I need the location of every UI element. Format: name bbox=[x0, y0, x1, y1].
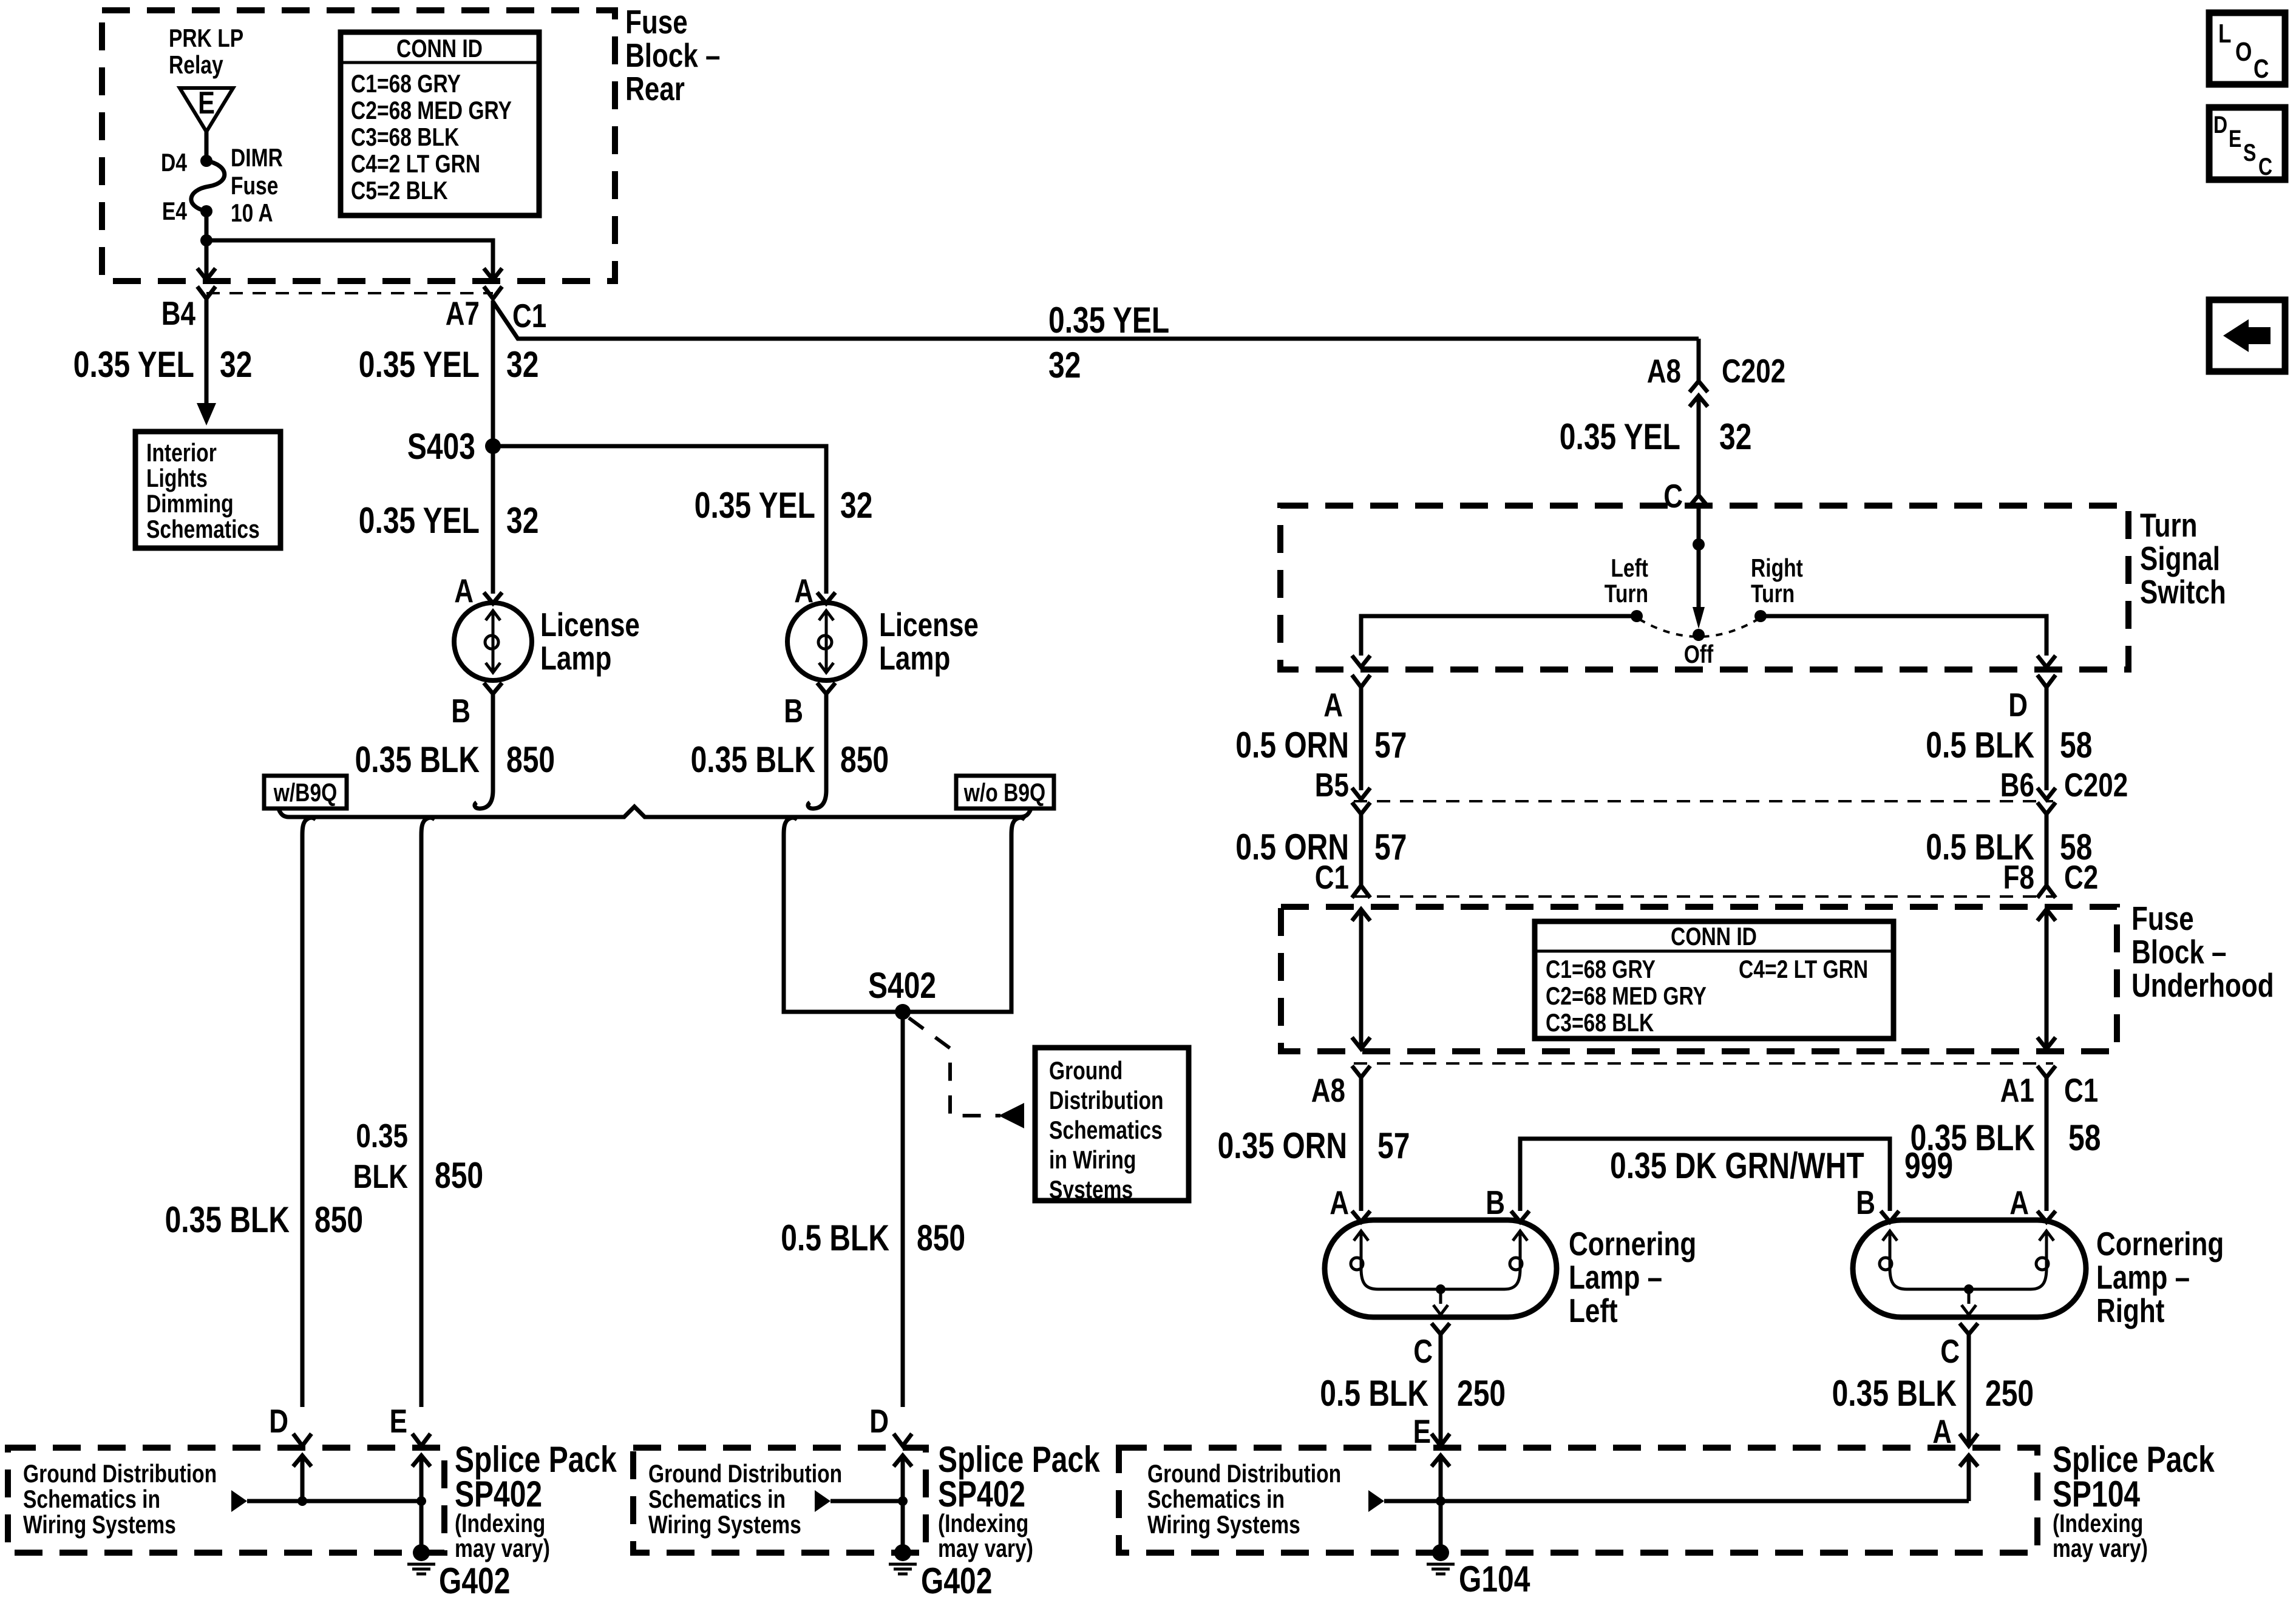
svg-text:(Indexing: (Indexing bbox=[2053, 1509, 2143, 1537]
arrowhead at B4 box exit bbox=[197, 268, 216, 280]
splice pack SP104 box bbox=[1119, 1448, 2037, 1553]
hook S402 right wire bbox=[1011, 818, 1025, 835]
svg-text:CONN ID: CONN ID bbox=[396, 34, 483, 63]
connector chevron A7 bbox=[484, 286, 502, 299]
svg-text:Systems: Systems bbox=[1049, 1175, 1133, 1204]
svg-text:B4: B4 bbox=[161, 294, 196, 332]
svg-text:in Wiring: in Wiring bbox=[1049, 1145, 1136, 1174]
wire S403 down to lamp 1 bbox=[491, 446, 495, 594]
svg-text:Block –: Block – bbox=[2131, 933, 2227, 971]
terminal D chevron below switch bbox=[2037, 675, 2056, 687]
wire long yel down to C202 bbox=[1697, 339, 1701, 382]
svg-text:Right: Right bbox=[2096, 1292, 2164, 1329]
svg-text:A8: A8 bbox=[1647, 352, 1681, 390]
label w/B9Q bbox=[264, 776, 347, 808]
switch contact left turn bbox=[1631, 610, 1643, 622]
junction node sp104 rail bbox=[1436, 1496, 1445, 1506]
svg-text:S403: S403 bbox=[407, 426, 475, 467]
rail with off page triangle sp402a bbox=[231, 1490, 247, 1512]
svg-text:D: D bbox=[869, 1402, 889, 1440]
arrow + chevron at B6 bbox=[2037, 788, 2056, 799]
connector C1 thin dashed line under rear fuse block bbox=[206, 292, 493, 294]
junction node S402 rail bbox=[898, 1496, 908, 1506]
svg-text:B: B bbox=[451, 692, 470, 730]
svg-text:999: 999 bbox=[1904, 1145, 1953, 1186]
svg-text:0.5 BLK: 0.5 BLK bbox=[781, 1218, 889, 1258]
svg-text:0.5 BLK: 0.5 BLK bbox=[1320, 1373, 1428, 1414]
chevron A1 C1 below underhood bbox=[2037, 1066, 2056, 1077]
svg-text:58: 58 bbox=[2068, 1117, 2101, 1158]
connector chevron B4 bbox=[197, 286, 216, 299]
svg-text:C1=68 GRY: C1=68 GRY bbox=[1546, 955, 1656, 983]
svg-text:A1: A1 bbox=[2000, 1071, 2034, 1109]
svg-text:Underhood: Underhood bbox=[2131, 966, 2274, 1004]
relay K triangle with E bbox=[180, 88, 233, 132]
svg-text:Ground Distribution: Ground Distribution bbox=[23, 1459, 217, 1488]
interior lights dimming schematics box bbox=[135, 432, 280, 548]
junction node E rail bbox=[416, 1496, 426, 1506]
cornering lamp right body bbox=[1853, 1220, 2086, 1317]
svg-text:may vary): may vary) bbox=[938, 1534, 1033, 1562]
svg-text:B: B bbox=[1486, 1184, 1505, 1221]
svg-text:E: E bbox=[198, 86, 215, 121]
wire left turn output bbox=[1361, 616, 1637, 656]
ground distribution schematics note box bbox=[1035, 1048, 1189, 1201]
svg-text:E: E bbox=[390, 1402, 407, 1440]
wire junction down to B4 exit bbox=[205, 240, 209, 266]
svg-text:D: D bbox=[269, 1402, 288, 1440]
svg-text:0.35 YEL: 0.35 YEL bbox=[359, 500, 480, 541]
svg-text:57: 57 bbox=[1374, 827, 1407, 867]
CONN ID table rear bbox=[341, 32, 539, 215]
svg-text:850: 850 bbox=[506, 739, 555, 780]
svg-text:B5: B5 bbox=[1315, 766, 1349, 804]
dashed leader S402 to ground distribution note bbox=[909, 1018, 1000, 1116]
wire B6 to F8 bbox=[2045, 814, 2049, 886]
wire dk grn/wht between lamps bbox=[1520, 1139, 1890, 1211]
svg-text:A: A bbox=[1932, 1412, 1952, 1450]
svg-text:B: B bbox=[1856, 1184, 1875, 1221]
wire lamp right to SP104 bbox=[1967, 1334, 1971, 1446]
svg-text:Interior: Interior bbox=[146, 438, 217, 467]
svg-text:Signal: Signal bbox=[2140, 540, 2220, 577]
arrowhead at A7 box exit bbox=[484, 268, 502, 280]
wire junction to A7 exit bbox=[206, 240, 493, 266]
svg-text:0.35 BLK: 0.35 BLK bbox=[1832, 1373, 1957, 1414]
hook S402 left wire bbox=[784, 818, 797, 835]
svg-text:may vary): may vary) bbox=[2053, 1534, 2148, 1562]
connector C202 thin dashed line bbox=[1354, 800, 2053, 802]
wire E down bbox=[419, 835, 424, 1407]
svg-text:BLK: BLK bbox=[353, 1158, 409, 1195]
svg-text:Schematics in: Schematics in bbox=[1147, 1485, 1285, 1513]
svg-text:57: 57 bbox=[1377, 1125, 1410, 1166]
svg-text:Rear: Rear bbox=[625, 70, 685, 107]
svg-text:C5=2 BLK: C5=2 BLK bbox=[351, 176, 448, 205]
svg-text:Cornering: Cornering bbox=[2096, 1225, 2224, 1263]
wire lamp1 to bus bbox=[491, 694, 495, 790]
svg-text:C: C bbox=[2258, 154, 2272, 180]
svg-text:Wiring Systems: Wiring Systems bbox=[1147, 1510, 1300, 1539]
svg-text:C1: C1 bbox=[512, 297, 546, 334]
svg-text:A: A bbox=[454, 572, 474, 609]
svg-text:850: 850 bbox=[435, 1155, 483, 1196]
wire B4 down to interior lights box bbox=[205, 299, 209, 408]
svg-text:(Indexing: (Indexing bbox=[938, 1509, 1028, 1537]
svg-text:0.35 YEL: 0.35 YEL bbox=[1048, 300, 1169, 341]
wire A8 to cornering lamp left bbox=[1359, 1077, 1364, 1211]
svg-text:250: 250 bbox=[1457, 1373, 1506, 1414]
license lamp 2 bbox=[787, 603, 865, 680]
terminal A chevron lamp2 bbox=[817, 592, 835, 603]
DESC icon box bbox=[2209, 107, 2285, 180]
wire lamp left to SP104 bbox=[1439, 1334, 1443, 1446]
svg-text:E: E bbox=[2229, 126, 2241, 152]
svg-text:32: 32 bbox=[506, 344, 538, 385]
svg-text:Distribution: Distribution bbox=[1049, 1086, 1164, 1114]
svg-text:G402: G402 bbox=[439, 1561, 510, 1601]
svg-text:may vary): may vary) bbox=[455, 1534, 550, 1562]
turn signal switch dashed box bbox=[1280, 506, 2128, 670]
arrowhead left output bbox=[1352, 656, 1370, 667]
svg-text:w/o B9Q: w/o B9Q bbox=[963, 778, 1045, 807]
rail with off page triangle sp402b bbox=[815, 1490, 830, 1512]
svg-text:Fuse: Fuse bbox=[625, 3, 688, 41]
svg-text:850: 850 bbox=[840, 739, 889, 780]
filament B left bbox=[1519, 1232, 1522, 1261]
svg-text:0.35 YEL: 0.35 YEL bbox=[1560, 416, 1680, 457]
svg-text:57: 57 bbox=[1374, 725, 1407, 765]
svg-text:C1=68 GRY: C1=68 GRY bbox=[351, 69, 461, 98]
svg-text:D4: D4 bbox=[161, 148, 188, 177]
ground G104 bbox=[1432, 1544, 1449, 1561]
svg-text:Lamp: Lamp bbox=[879, 639, 950, 677]
svg-text:0.35 ORN: 0.35 ORN bbox=[1218, 1125, 1347, 1166]
wire S402 down bbox=[901, 1012, 905, 1407]
leader arrowhead bbox=[999, 1103, 1024, 1128]
arrowhead right output bbox=[2037, 656, 2056, 667]
filament rail left lamp bbox=[1361, 1269, 1520, 1289]
svg-text:Schematics: Schematics bbox=[146, 515, 260, 543]
svg-text:PRK LP: PRK LP bbox=[169, 24, 243, 52]
fuse block underhood dashed box bbox=[1281, 907, 2117, 1051]
connector C202 double chevron A8 bbox=[1690, 381, 1708, 392]
svg-text:DIMR: DIMR bbox=[231, 143, 283, 172]
wire A to C202 bbox=[1359, 687, 1364, 790]
ground bus line with center break bbox=[279, 807, 1031, 817]
node Off bbox=[1693, 629, 1705, 641]
svg-text:Wiring Systems: Wiring Systems bbox=[23, 1510, 176, 1539]
svg-text:C2=68 MED GRY: C2=68 MED GRY bbox=[351, 96, 512, 124]
hook lamp1 ground bbox=[475, 790, 493, 808]
svg-text:32: 32 bbox=[1048, 345, 1081, 385]
svg-text:Relay: Relay bbox=[169, 50, 223, 79]
svg-text:0.35 BLK: 0.35 BLK bbox=[165, 1199, 290, 1240]
terminal B chevron lamp2 bbox=[817, 683, 835, 694]
filament rail right lamp bbox=[1890, 1269, 2046, 1289]
svg-text:G402: G402 bbox=[921, 1561, 992, 1601]
svg-text:C1: C1 bbox=[1315, 858, 1349, 896]
hook lamp2 ground bbox=[808, 790, 826, 808]
arrow at F8 bbox=[2037, 886, 2056, 898]
svg-text:C: C bbox=[1663, 477, 1683, 515]
svg-text:32: 32 bbox=[840, 485, 872, 526]
svg-text:58: 58 bbox=[2060, 725, 2092, 765]
LOC icon box bbox=[2209, 13, 2285, 84]
underhood right through-wire with arrows bbox=[2045, 909, 2049, 1049]
svg-text:L: L bbox=[2218, 19, 2232, 49]
svg-text:C: C bbox=[1413, 1332, 1433, 1370]
underhood connector thin dashed line (top) bbox=[1354, 895, 2053, 898]
terminal B chevron lamp1 bbox=[484, 683, 502, 694]
rail with off page triangle sp104 bbox=[1368, 1490, 1384, 1512]
svg-text:0.35 YEL: 0.35 YEL bbox=[359, 344, 480, 385]
svg-text:S: S bbox=[2243, 140, 2256, 166]
chevron A8 below underhood bbox=[1352, 1066, 1370, 1077]
svg-text:A: A bbox=[1330, 1184, 1349, 1221]
svg-text:O: O bbox=[2235, 37, 2252, 67]
svg-text:0.35 BLK: 0.35 BLK bbox=[691, 739, 815, 780]
svg-text:Lamp –: Lamp – bbox=[1569, 1258, 1662, 1296]
svg-text:Fuse: Fuse bbox=[2131, 900, 2194, 937]
svg-text:Wiring Systems: Wiring Systems bbox=[648, 1510, 801, 1539]
svg-text:Left: Left bbox=[1611, 554, 1648, 582]
splice S403 bbox=[485, 438, 501, 454]
svg-text:Ground Distribution: Ground Distribution bbox=[648, 1459, 842, 1488]
svg-text:32: 32 bbox=[220, 344, 252, 385]
svg-text:0.35 BLK: 0.35 BLK bbox=[355, 739, 480, 780]
SECTION: splice packs left bbox=[8, 1402, 1100, 1601]
wire E4 down bbox=[205, 211, 209, 240]
svg-text:D: D bbox=[2213, 112, 2227, 138]
wire C1 branch diagonal to long yel wire bbox=[493, 302, 1699, 339]
svg-text:Schematics: Schematics bbox=[1049, 1116, 1163, 1144]
filament A right bbox=[2045, 1232, 2048, 1261]
svg-text:C4=2 LT GRN: C4=2 LT GRN bbox=[1739, 955, 1868, 983]
filament A left bbox=[1360, 1232, 1363, 1261]
switch common wire bbox=[1697, 506, 1701, 607]
svg-text:Turn: Turn bbox=[1751, 579, 1795, 608]
svg-text:SP104: SP104 bbox=[2053, 1474, 2141, 1514]
SECTION: right column bbox=[1218, 339, 2274, 1211]
svg-text:C1: C1 bbox=[2064, 1071, 2098, 1109]
ground G402 (1) bbox=[413, 1544, 430, 1561]
svg-text:Fuse: Fuse bbox=[231, 171, 278, 200]
svg-text:C3=68 BLK: C3=68 BLK bbox=[351, 123, 459, 151]
svg-text:Cornering: Cornering bbox=[1569, 1225, 1696, 1263]
svg-text:Left: Left bbox=[1569, 1292, 1618, 1329]
arrow at C1 bbox=[1352, 886, 1370, 898]
underhood connector thin dashed line (bottom) bbox=[1354, 1062, 2053, 1065]
svg-text:License: License bbox=[879, 606, 979, 643]
svg-text:C202: C202 bbox=[2064, 766, 2128, 804]
svg-text:Ground Distribution: Ground Distribution bbox=[1147, 1459, 1341, 1488]
rail up arrow to A chevron sp104 bbox=[1967, 1456, 1971, 1501]
svg-text:Schematics in: Schematics in bbox=[648, 1485, 786, 1513]
svg-text:32: 32 bbox=[506, 500, 538, 541]
svg-text:850: 850 bbox=[917, 1218, 965, 1258]
svg-text:A: A bbox=[2009, 1184, 2029, 1221]
svg-text:Ground: Ground bbox=[1049, 1056, 1123, 1085]
svg-text:850: 850 bbox=[314, 1199, 363, 1240]
arrow into box D wire bbox=[293, 1456, 311, 1466]
svg-text:B6: B6 bbox=[2000, 766, 2034, 804]
wire C202 to switch bbox=[1697, 396, 1701, 497]
svg-text:C3=68 BLK: C3=68 BLK bbox=[1546, 1008, 1654, 1037]
wire S403 right branch to lamp 2 bbox=[493, 446, 826, 594]
svg-text:0.35 YEL: 0.35 YEL bbox=[73, 344, 194, 385]
svg-text:(Indexing: (Indexing bbox=[455, 1509, 545, 1537]
arrow into box E wire bbox=[412, 1456, 430, 1466]
terminal C chevron bbox=[1690, 495, 1708, 506]
svg-text:F8: F8 bbox=[2003, 858, 2034, 896]
svg-text:10 A: 10 A bbox=[231, 198, 273, 227]
wire D down bbox=[301, 835, 305, 1407]
junction node D rail bbox=[297, 1496, 307, 1506]
license lamp 1 bbox=[454, 603, 532, 680]
arrow + chevron at B5 bbox=[1352, 788, 1370, 799]
switch contact right turn bbox=[1754, 610, 1767, 622]
switch arm solid arrowhead bbox=[1693, 607, 1705, 629]
svg-text:32: 32 bbox=[1719, 416, 1751, 457]
svg-text:E: E bbox=[1413, 1412, 1431, 1450]
SECTION: fuse block rear bbox=[102, 3, 721, 281]
svg-text:C202: C202 bbox=[1722, 352, 1785, 390]
svg-text:D: D bbox=[2008, 686, 2028, 724]
node D4 bbox=[200, 155, 212, 167]
svg-text:A8: A8 bbox=[1311, 1071, 1345, 1109]
arrow into box E wire sp104 bbox=[1432, 1456, 1450, 1466]
svg-text:CONN ID: CONN ID bbox=[1671, 922, 1757, 951]
wire A7 down to S403 bbox=[491, 300, 495, 446]
svg-text:Lights: Lights bbox=[146, 464, 208, 492]
cornering lamp left body bbox=[1325, 1220, 1557, 1317]
svg-text:B: B bbox=[784, 692, 803, 730]
underhood left through-wire with arrows bbox=[1359, 909, 1364, 1049]
svg-text:0.5 ORN: 0.5 ORN bbox=[1235, 725, 1349, 765]
wire D to C202 bbox=[2045, 687, 2049, 790]
SECTION: lamps and bus bbox=[165, 572, 1189, 1407]
arrow into box S402 wire bbox=[894, 1456, 912, 1466]
junction node bbox=[200, 234, 212, 246]
svg-text:A7: A7 bbox=[446, 294, 480, 332]
hook D wire bbox=[302, 818, 316, 835]
splice S402 bbox=[895, 1004, 911, 1020]
svg-text:Turn: Turn bbox=[1605, 579, 1648, 608]
SECTION: cornering lamps bbox=[1119, 1184, 2224, 1599]
svg-text:SP402: SP402 bbox=[455, 1474, 542, 1514]
solid arrowhead to interior lights box bbox=[197, 403, 216, 425]
terminal A chevron lamp1 bbox=[484, 592, 502, 603]
fuse DIMR 10A bbox=[191, 161, 225, 211]
svg-text:G104: G104 bbox=[1459, 1559, 1530, 1599]
filament B right bbox=[1889, 1232, 1892, 1261]
junction node on switch wire bbox=[1693, 538, 1705, 551]
svg-text:C4=2 LT GRN: C4=2 LT GRN bbox=[351, 149, 480, 178]
svg-text:License: License bbox=[540, 606, 640, 643]
svg-text:Turn: Turn bbox=[2140, 506, 2198, 544]
svg-text:C2=68 MED GRY: C2=68 MED GRY bbox=[1546, 981, 1707, 1010]
ground G402 (2) bbox=[894, 1544, 911, 1561]
svg-text:C: C bbox=[2254, 54, 2269, 84]
wire A1 to cornering lamp right bbox=[2045, 1077, 2049, 1211]
svg-text:Switch: Switch bbox=[2140, 573, 2226, 611]
SECTION: left column bbox=[73, 286, 1699, 594]
svg-text:Lamp: Lamp bbox=[540, 639, 611, 677]
SECTION: icons bbox=[2209, 13, 2285, 371]
svg-text:w/B9Q: w/B9Q bbox=[273, 778, 337, 807]
svg-text:C: C bbox=[1940, 1332, 1960, 1370]
wire B5 to C1 bbox=[1359, 814, 1364, 886]
svg-text:0.35: 0.35 bbox=[356, 1117, 408, 1154]
wire S402 left leg bbox=[784, 835, 1011, 1012]
svg-text:0.35 DK GRN/WHT: 0.35 DK GRN/WHT bbox=[1610, 1145, 1864, 1186]
svg-text:S402: S402 bbox=[868, 965, 936, 1006]
wire right turn output bbox=[1761, 616, 2046, 656]
dashed throw arc bbox=[1639, 619, 1758, 637]
fuse block - rear dashed box bbox=[102, 10, 615, 281]
terminal A chevron below switch bbox=[1352, 675, 1370, 687]
svg-text:Off: Off bbox=[1684, 640, 1714, 668]
terminal C chevron lamp right bbox=[1960, 1323, 1978, 1334]
wire relay to fuse bbox=[205, 132, 209, 161]
svg-text:Schematics in: Schematics in bbox=[23, 1485, 160, 1513]
svg-text:SP402: SP402 bbox=[938, 1474, 1025, 1514]
CONN ID table underhood bbox=[1535, 921, 1894, 1039]
terminal C chevron lamp left bbox=[1432, 1323, 1450, 1334]
splice pack SP402 box 1 bbox=[8, 1448, 444, 1553]
svg-text:E4: E4 bbox=[162, 197, 188, 225]
svg-text:250: 250 bbox=[1985, 1373, 2034, 1414]
svg-text:A: A bbox=[1323, 686, 1343, 724]
node E4 bbox=[200, 205, 212, 217]
label w/o B9Q bbox=[956, 776, 1054, 808]
back arrow icon box bbox=[2209, 300, 2285, 371]
splice pack SP402 box 2 bbox=[633, 1448, 926, 1553]
svg-text:Block –: Block – bbox=[625, 36, 721, 74]
hook E wire bbox=[421, 818, 435, 835]
svg-text:Dimming: Dimming bbox=[146, 489, 234, 518]
svg-text:Lamp –: Lamp – bbox=[2096, 1258, 2190, 1296]
wire lamp2 to bus bbox=[824, 694, 829, 790]
svg-text:C2: C2 bbox=[2064, 858, 2098, 896]
svg-text:Right: Right bbox=[1751, 554, 1803, 582]
svg-text:0.35 YEL: 0.35 YEL bbox=[695, 485, 815, 526]
svg-text:0.5 BLK: 0.5 BLK bbox=[1926, 725, 2034, 765]
